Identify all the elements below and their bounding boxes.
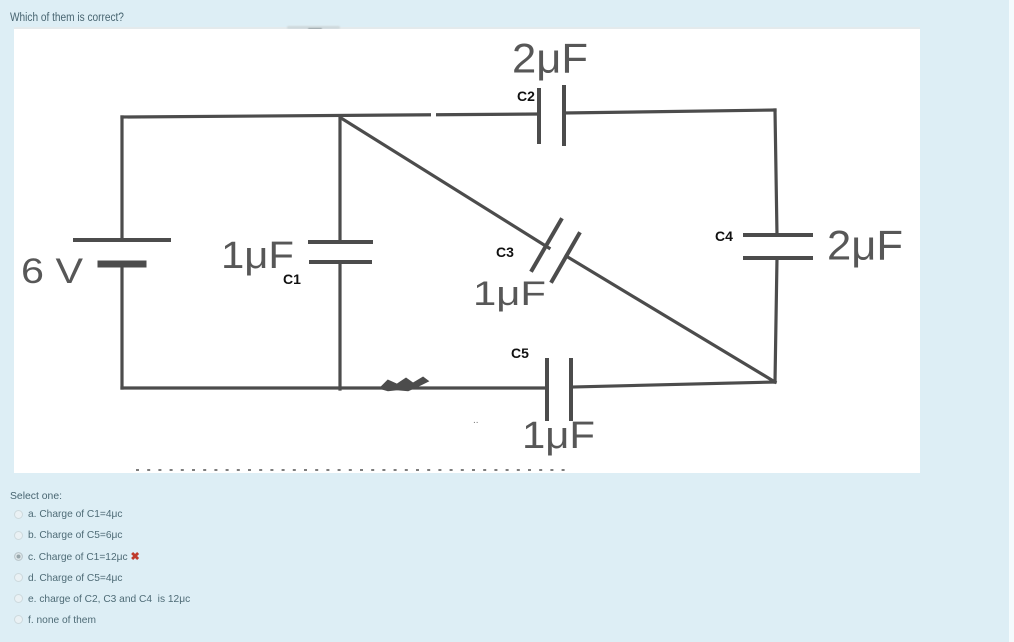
- svg-text:1μF: 1μF: [522, 415, 595, 457]
- capacitor C5 plates: [547, 360, 571, 419]
- wire top right segment: [564, 110, 775, 113]
- svg-text:2μF: 2μF: [512, 35, 588, 82]
- wire diagonal upper: [341, 118, 549, 248]
- wire top left segment: [122, 114, 539, 117]
- wire bottom right segment: [572, 382, 775, 387]
- svg-text:C1: C1: [283, 271, 301, 287]
- label 2uF for C4: [827, 222, 903, 269]
- label C2: [517, 88, 535, 104]
- scan gap in top wire: [431, 109, 436, 118]
- scribble on bottom wire: [381, 378, 427, 390]
- label C1: [283, 271, 301, 287]
- wire diagonal lower: [566, 256, 775, 382]
- svg-text:6 V: 6 V: [21, 252, 84, 291]
- wire right lower: [775, 258, 777, 382]
- svg-text:C5: C5: [511, 345, 529, 361]
- label 2uF for C2: [512, 35, 588, 82]
- wire left upper: [120, 117, 123, 240]
- label 1uF for C3: [473, 275, 546, 313]
- svg-text:C3: C3: [496, 244, 514, 260]
- label C5: [511, 345, 529, 361]
- capacitor C4 plates: [745, 235, 811, 258]
- wire middle upper: [338, 116, 341, 242]
- scan artifact dots: [473, 415, 479, 426]
- battery B1 long plate: [75, 238, 169, 242]
- battery B1 short plate: [101, 261, 143, 268]
- wire left lower: [120, 266, 123, 388]
- label 1uF for C1: [221, 235, 294, 277]
- label C3: [496, 244, 514, 260]
- svg-text:..: ..: [473, 415, 479, 426]
- wire bottom left segment: [122, 386, 545, 389]
- wire middle lower: [338, 262, 341, 389]
- capacitor C1 plates: [310, 242, 371, 262]
- label C4: [715, 228, 733, 244]
- label 1uF for C5: [522, 415, 595, 457]
- svg-text:1μF: 1μF: [473, 275, 546, 313]
- svg-text:C4: C4: [715, 228, 733, 244]
- capacitor C3 plate 1: [532, 220, 561, 270]
- wire right upper: [775, 110, 777, 235]
- svg-text:2μF: 2μF: [827, 222, 903, 269]
- label 6 V for battery: [21, 252, 84, 291]
- scan smudge above image top edge: [14, 27, 920, 29]
- capacitor C2 plates: [539, 87, 564, 144]
- svg-text:C2: C2: [517, 88, 535, 104]
- scan artifact dotted line bottom: [136, 469, 570, 471]
- capacitor C3 plate 2: [552, 234, 579, 281]
